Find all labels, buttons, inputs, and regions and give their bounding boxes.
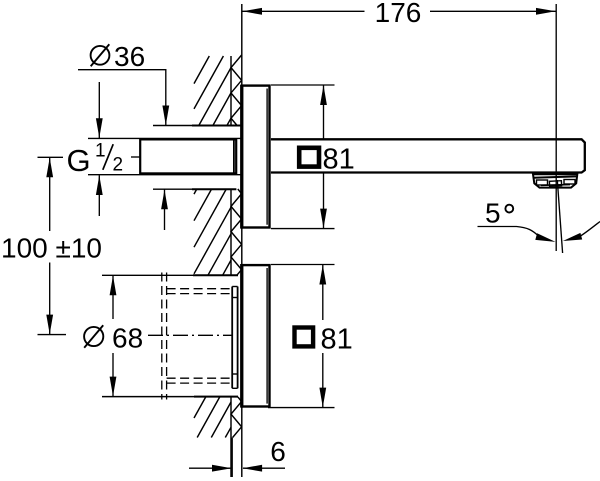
arrowhead angle arc left	[535, 233, 555, 242]
arrowhead 6 left	[212, 465, 232, 472]
dimension square-81 bottom: extension lines	[268, 265, 335, 408]
square symbol bottom	[295, 328, 314, 347]
dimension 100 plus-minus 10	[38, 157, 67, 334]
wall finish chevron hatch middle	[231, 189, 242, 275]
dimension square-81 top: extension lines	[271, 85, 335, 229]
diameter-36 label and leader	[91, 46, 110, 65]
spout arm	[271, 139, 585, 172]
svg-text:81: 81	[323, 144, 355, 176]
wall face line	[241, 4, 243, 477]
pipe end cap at wall	[233, 139, 235, 173]
square symbol top	[299, 148, 319, 167]
svg-text:6: 6	[270, 436, 286, 467]
wall hole edge for pipe (top)	[153, 125, 241, 127]
arrowhead G12 upper	[96, 118, 103, 138]
dimension extension line at spout outlet (right, x=556)	[555, 4, 557, 251]
flush-mount box hidden outline (dashed)	[162, 273, 231, 400]
dimension diameter-68	[112, 275, 114, 396]
supply pipe thin extension lines	[88, 138, 241, 174]
arrowhead 176 left	[242, 8, 262, 15]
arrowhead 6 right	[242, 465, 262, 472]
wall hole edge for flush-mount box (top) / dim extension	[102, 274, 238, 276]
arrowhead angle arc right	[563, 233, 582, 241]
wall finish layer boundary line	[230, 56, 232, 477]
dimension 6 at bottom	[231, 438, 233, 478]
supply pipe G1/2 nipple	[140, 139, 236, 173]
wall hatch lower section	[194, 397, 231, 438]
svg-text:5: 5	[485, 198, 501, 229]
arrowhead 81-bottom upper	[319, 265, 326, 285]
G 1/2 leader dashes	[131, 156, 140, 158]
svg-text:2: 2	[113, 155, 124, 176]
dimension 176	[242, 10, 556, 12]
svg-text:68: 68	[112, 322, 143, 353]
arrowhead dia68 upper	[110, 276, 117, 296]
arrowhead 81-bottom lower	[319, 388, 326, 408]
arrowhead dia68 lower	[110, 377, 117, 397]
arrowhead 100 upper	[46, 158, 53, 178]
G 1/2 dimension arrows	[98, 82, 100, 138]
arrowhead 100 lower	[46, 315, 53, 335]
arrowhead 81-top upper	[320, 85, 327, 105]
arrowhead G12 lower	[96, 175, 103, 195]
svg-text:81: 81	[321, 323, 353, 355]
wall hole edge for pipe (bottom)	[153, 188, 236, 190]
svg-text:36: 36	[114, 41, 145, 72]
box centre line (dash-dot)	[148, 334, 233, 336]
arrowhead 81-top lower	[320, 209, 327, 229]
aerator / mousseur under spout end	[533, 174, 577, 187]
water stream 5-degree line	[557, 180, 562, 253]
wall finish chevron hatch upper	[231, 55, 242, 126]
wall hatch upper section	[194, 56, 231, 126]
wall hole edge for flush-mount box (bottom) / dim extension	[102, 396, 238, 398]
arrowhead 176 right	[536, 8, 556, 15]
wall hatch middle section	[194, 189, 231, 275]
diameter symbol 68	[84, 327, 103, 346]
svg-text:176: 176	[375, 0, 422, 28]
svg-text:G: G	[67, 143, 91, 178]
svg-text:1: 1	[95, 141, 106, 162]
top wall plate (escutcheon)	[242, 85, 270, 229]
svg-text:100 ±10: 100 ±10	[1, 232, 102, 263]
arrowhead dia36 upper	[162, 106, 169, 126]
arrowhead dia36 lower	[161, 190, 168, 210]
wall finish chevron hatch lower	[231, 397, 242, 438]
box mounting collar at wall face	[232, 287, 237, 389]
bottom wall plate (escutcheon)	[242, 264, 270, 408]
5 degree leader and angle arc	[478, 227, 539, 236]
